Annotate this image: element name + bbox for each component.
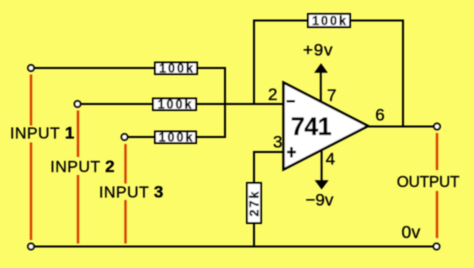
wire input1 to R1 (34, 67, 155, 69)
red lead input3 lower (124, 200, 126, 244)
svg-text:27k: 27k (248, 190, 262, 217)
red lead input1 lower (30, 143, 32, 241)
svg-text:0v: 0v (402, 222, 421, 242)
wire pin4 to -9v arrow (321, 151, 323, 181)
svg-text:741: 741 (291, 113, 332, 141)
svg-text:100k: 100k (312, 14, 348, 28)
non-inverting input plus marker (287, 147, 296, 158)
svg-text:4: 4 (326, 150, 335, 169)
wire R2 to op-amp pin 2 (196, 103, 283, 105)
terminal output (434, 124, 440, 130)
svg-text:−9v: −9v (306, 191, 334, 210)
svg-text:100k: 100k (159, 131, 195, 145)
resistor R1 100k (155, 62, 197, 76)
terminal 0v right (434, 244, 440, 250)
wire input2 to R2 (81, 103, 153, 105)
inverting input minus marker (287, 100, 296, 103)
svg-text:INPUT 1: INPUT 1 (10, 124, 75, 143)
op-amp U1 741 body (284, 83, 369, 170)
red lead output upper (436, 133, 438, 170)
+9v supply arrow (314, 63, 328, 73)
resistor R3 100k (155, 131, 196, 145)
svg-text:+9v: +9v (303, 41, 333, 60)
wire R1 to summing bus (197, 67, 226, 69)
terminal input 1 (28, 65, 34, 71)
wire pin3 horizontal (253, 151, 283, 153)
red lead input2 lower (77, 175, 79, 244)
svg-text:100k: 100k (158, 98, 194, 112)
wire R3 to summing bus (196, 136, 226, 138)
-9v supply arrow (315, 180, 329, 189)
svg-text:7: 7 (327, 86, 336, 105)
red lead input1 upper (30, 75, 32, 126)
red lead input2 upper (77, 111, 79, 158)
wire feedback top left (253, 20, 309, 22)
svg-text:100k: 100k (159, 62, 195, 76)
wire feedback vertical from pin2 node (253, 21, 255, 104)
svg-text:3: 3 (273, 133, 282, 152)
wire feedback top right (349, 20, 404, 22)
red lead input3 upper (124, 144, 126, 184)
svg-text:INPUT 3: INPUT 3 (99, 182, 164, 201)
wire R4 to 0v rail (253, 222, 255, 247)
resistor R4 27k (247, 183, 262, 223)
wire pin3 down to R4 (253, 151, 255, 184)
terminal input 3 (122, 134, 128, 140)
red lead output lower (436, 191, 438, 238)
svg-text:OUTPUT: OUTPUT (397, 174, 460, 191)
wire pin7 to +9v arrow (320, 72, 322, 102)
svg-text:2: 2 (268, 85, 277, 104)
wire 0v rail (34, 246, 434, 248)
svg-text:6: 6 (375, 106, 384, 125)
wire feedback down to output (402, 20, 404, 128)
resistor RF 100k feedback (308, 14, 350, 28)
wire input3 to R3 (128, 136, 155, 138)
wire output pin6 (367, 126, 434, 128)
terminal input 2 (75, 101, 81, 107)
terminal 0v left (28, 244, 34, 250)
wire summing bus vertical (224, 67, 226, 138)
svg-text:INPUT 2: INPUT 2 (50, 157, 115, 176)
resistor R2 100k (153, 98, 196, 112)
